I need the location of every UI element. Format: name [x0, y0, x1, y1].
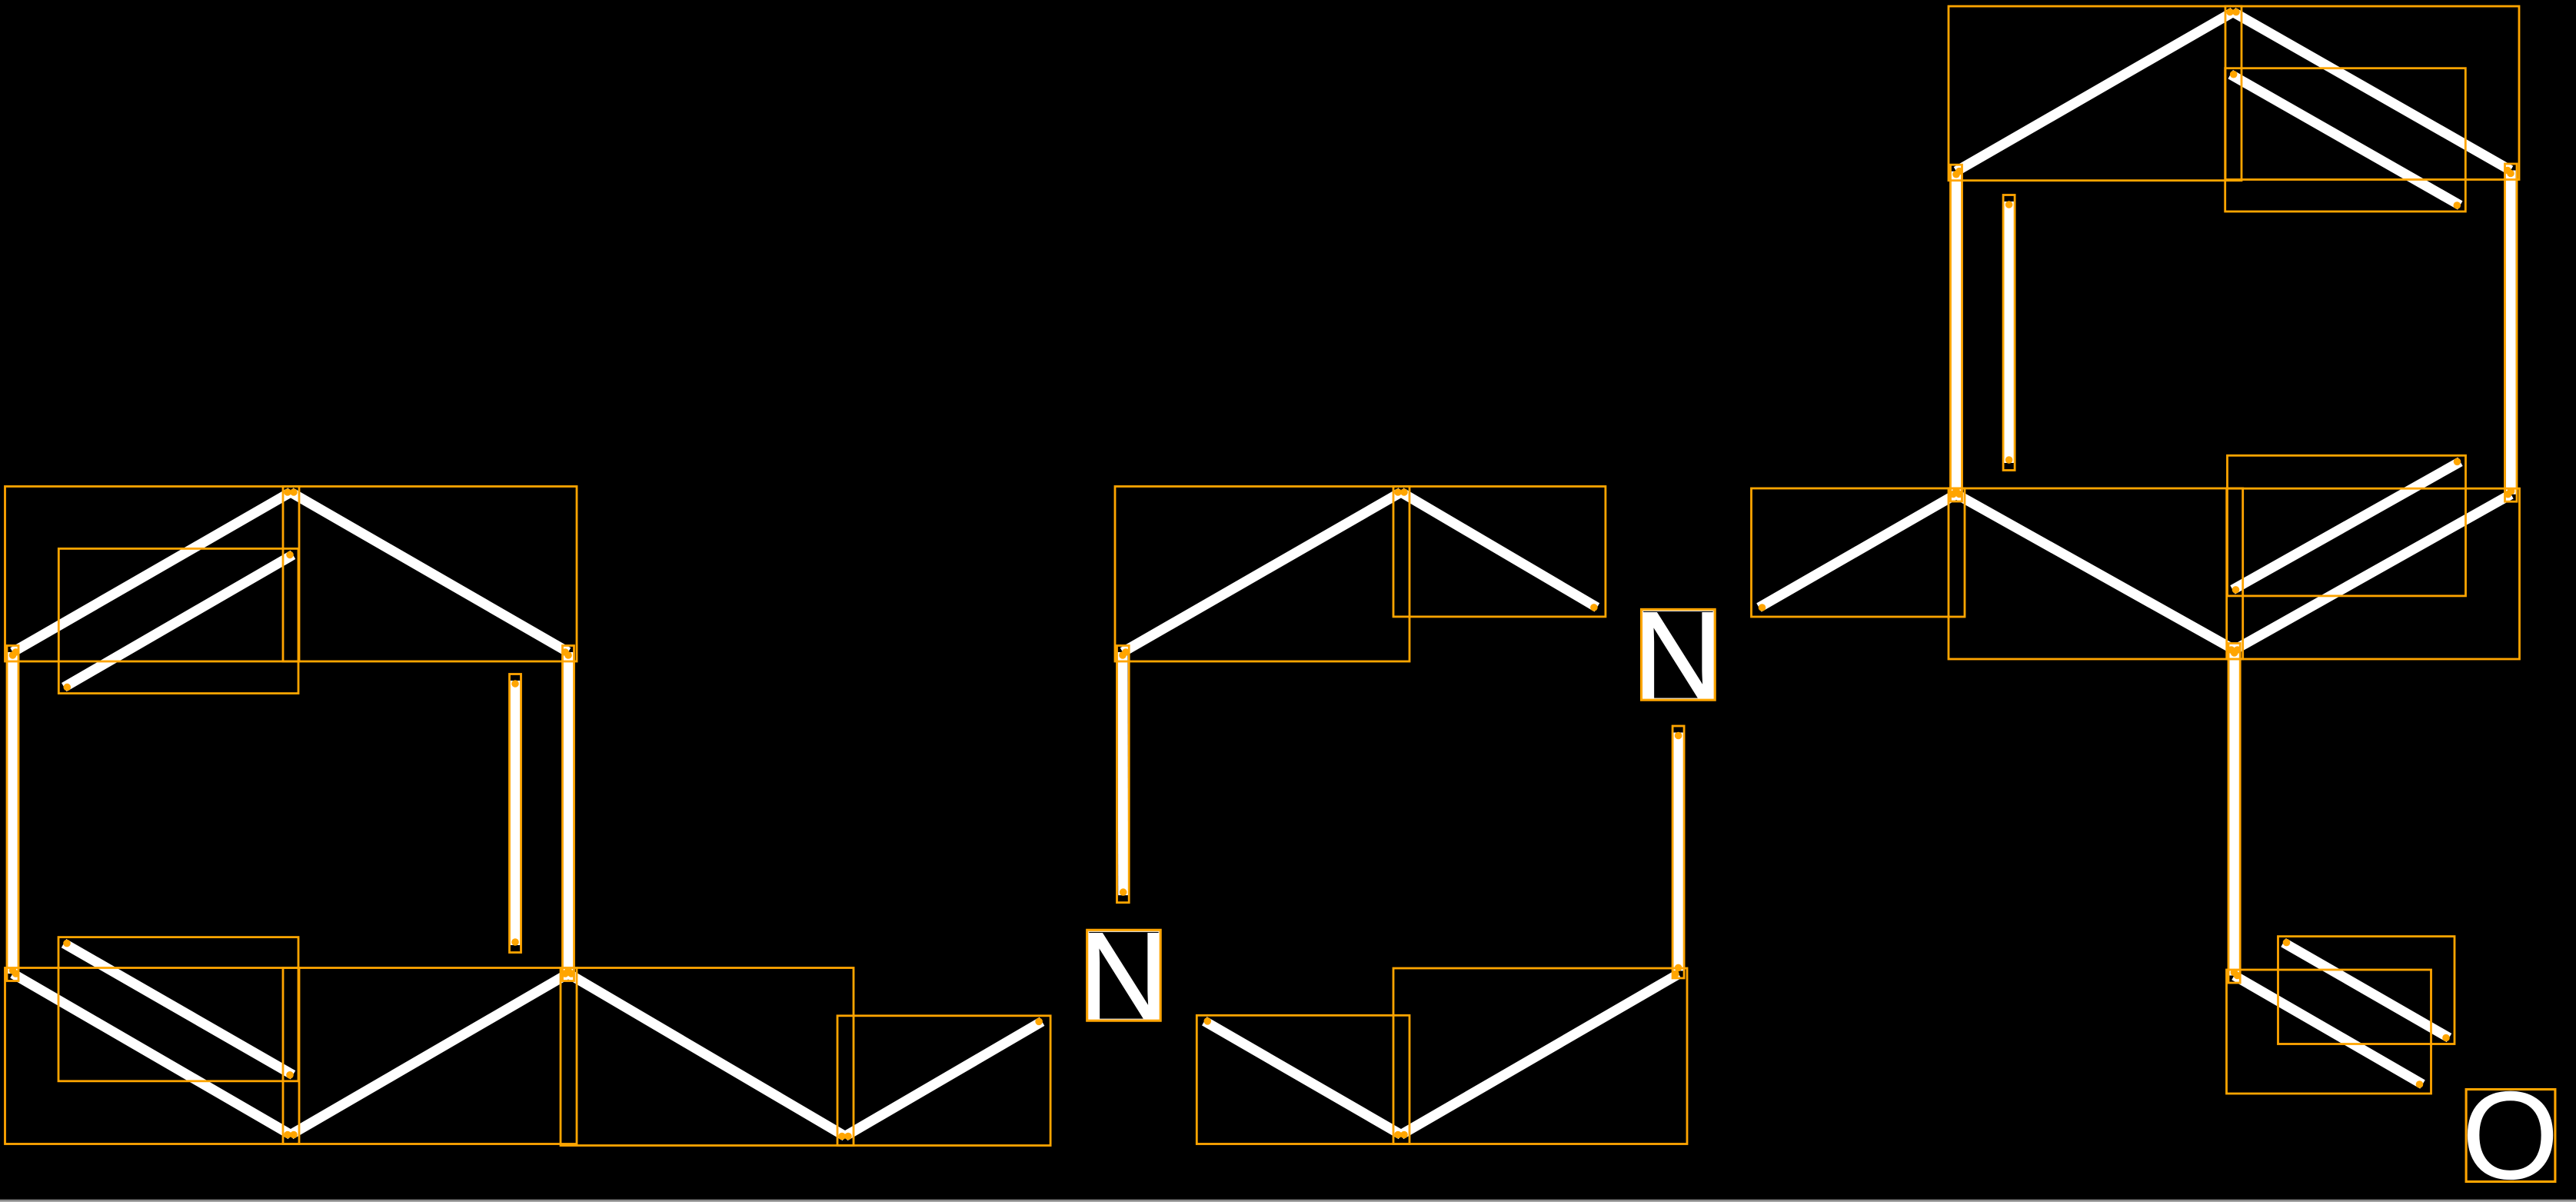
bond D3-D5 (phenyl-R single) — [2506, 171, 2517, 494]
bond A5-B1 (CH2 link) — [568, 974, 845, 1137]
endpoint dots of bond N2-C4 (piperazine) — [1675, 732, 1682, 740]
box of bond A5-B1 (CH2 link) — [561, 968, 854, 1146]
endpoint dots of bond D2-D1 (phenyl-R single) — [1955, 168, 1963, 175]
bond N1-C5 (piperazine) — [1204, 1021, 1401, 1135]
bond D1-D3 inner line — [2231, 75, 2461, 205]
box of bond D4-D6 (phenyl-R single) — [1949, 488, 2243, 659]
window bottom edge strip — [0, 1199, 2576, 1202]
box of bond D3-D5 (phenyl-R single) — [2505, 164, 2518, 501]
box of bond A6-A5 (phenyl-L single) — [283, 968, 577, 1144]
endpoint dots of bond D2-D4 (phenyl-R double, main) — [1952, 171, 1960, 178]
box of bond C2-N1 (piperazine) — [1117, 646, 1130, 903]
box of bond A3-A5 inner line — [510, 674, 521, 953]
box of bond CC=O inner line — [2278, 937, 2455, 1044]
endpoint dots of bond A3-A5 (phenyl-L double, main) — [564, 651, 572, 659]
box of bond N2-D4 (N-aryl) — [1752, 488, 1965, 617]
box of bond CC=O (carbonyl, main) — [2227, 970, 2431, 1094]
box of bond D2-D1 (phenyl-R single) — [1949, 6, 2242, 181]
box of bond D5-D6 inner line — [2228, 455, 2466, 596]
box of bond A3-A5 (phenyl-L double, main) — [563, 646, 574, 981]
bond A4-A6 inner line — [64, 944, 293, 1075]
bond D2-D4 (phenyl-R double, main) — [1952, 171, 1962, 494]
endpoint dots of bond D3-D5 (phenyl-R single) — [2507, 170, 2514, 178]
endpoint dots of bond C2-C1 (piperazine) — [1122, 648, 1130, 656]
bond A4-A6 (phenyl-L double, main) — [13, 974, 291, 1135]
box of bond D1-D3 (phenyl-R double, main) — [2225, 6, 2519, 179]
bond C2-N1 (piperazine) — [1118, 652, 1129, 895]
box of bond N1-C5 (piperazine) — [1196, 1015, 1409, 1144]
box of bond A2-A4 (phenyl-L single) — [7, 646, 18, 981]
bond C2-C1 (piperazine) — [1123, 492, 1401, 652]
bond N2-C4 (piperazine) — [1673, 733, 1683, 971]
box of bond A1-A2 inner line — [58, 548, 298, 693]
bond D2-D4 inner line — [2004, 201, 2014, 463]
endpoint dots of bond A3-A5 inner line — [511, 680, 519, 688]
bond D5-D6 (phenyl-R double, main) — [2235, 494, 2511, 650]
endpoint dots of bond A4-A6 inner line — [63, 940, 71, 947]
endpoint dots of bond C2-N1 (piperazine) — [1119, 651, 1127, 659]
bond A1-A2 inner line — [64, 554, 293, 687]
box of bond D5-D6 (phenyl-R double, main) — [2227, 488, 2520, 659]
endpoint dots of bond D4-D6 (phenyl-R single) — [1955, 491, 1963, 498]
box of bond A1-A2 (phenyl-L double, main) — [5, 487, 300, 662]
endpoint dots of bond A1-A3 (phenyl-L single) — [290, 488, 298, 496]
bond C1-N2 (piperazine) — [1401, 492, 1597, 608]
box of bond D2-D4 (phenyl-R double, main) — [1951, 165, 1962, 501]
bond CC=O (carbonyl, main) — [2235, 976, 2423, 1085]
endpoint dots of bond A1-A2 inner line — [286, 551, 294, 559]
svg-text:N: N — [1078, 906, 1169, 1047]
box of bond A1-A3 (phenyl-L single) — [283, 487, 577, 662]
endpoint dots of bond D2-D4 inner line — [2005, 201, 2013, 208]
box of bond D2-D4 inner line — [2003, 195, 2015, 471]
bond N2-D4 (N-aryl) — [1759, 494, 1957, 608]
endpoint dots of bond C1-N2 (piperazine) — [1400, 488, 1408, 496]
bond A3-A5 inner line — [511, 681, 521, 945]
endpoint dots of bond A1-A2 (phenyl-L double, main) — [284, 488, 291, 496]
bond D1-D3 (phenyl-R double, main) — [2233, 12, 2511, 171]
endpoint dots of bond N1-C5 (piperazine) — [1204, 1017, 1212, 1025]
endpoint dots of bond A4-A6 (phenyl-L double, main) — [12, 970, 20, 977]
bond A1-A3 (phenyl-L single) — [291, 492, 568, 652]
box of bond A4-A6 (phenyl-L double, main) — [5, 968, 300, 1144]
endpoint dots of bond B1-N1 — [844, 1133, 852, 1140]
box of bond D1-D3 inner line — [2225, 68, 2466, 211]
box of bond D6-CC (aryl-CHO link) — [2228, 644, 2240, 984]
bond D6-CC (aryl-CHO link) — [2229, 650, 2239, 976]
bond D5-D6 inner line — [2233, 461, 2461, 590]
bond C4-C5 (piperazine) — [1401, 974, 1679, 1135]
box of bond B1-N1 — [837, 1016, 1050, 1146]
endpoint dots of bond D6-CC (aryl-CHO link) — [2231, 649, 2238, 657]
endpoint dots of bond CC=O inner line — [2283, 939, 2291, 947]
box of bond N2-C4 (piperazine) — [1672, 726, 1684, 978]
svg-text:N: N — [1632, 585, 1723, 726]
bond CC=O inner line — [2284, 943, 2450, 1038]
bond D2-D1 (phenyl-R single) — [1956, 12, 2233, 171]
endpoint dots of bond A2-A4 (phenyl-L single) — [9, 651, 17, 659]
endpoint dots of bond A6-A5 (phenyl-L single) — [290, 1131, 298, 1139]
endpoint dots of bond D5-D6 (phenyl-R double, main) — [2504, 491, 2512, 498]
box of bond C1-N2 (piperazine) — [1393, 487, 1606, 617]
bond A3-A5 (phenyl-L double, main) — [564, 652, 574, 974]
bond B1-N1 — [845, 1021, 1042, 1136]
bond D4-D6 (phenyl-R single) — [1956, 494, 2235, 651]
bond A2-A4 (phenyl-L single) — [8, 652, 18, 974]
endpoint dots of bond CC=O (carbonyl, main) — [2234, 972, 2242, 980]
box of bond C4-C5 (piperazine) — [1393, 968, 1687, 1144]
box of bond A4-A6 inner line — [58, 937, 298, 1081]
bond A1-A2 (phenyl-L double, main) — [13, 492, 291, 652]
endpoint dots of bond A5-B1 (CH2 link) — [567, 970, 575, 977]
box of bond C2-C1 (piperazine) — [1115, 487, 1409, 662]
endpoint dots of bond D1-D3 inner line — [2230, 71, 2238, 78]
endpoint dots of bond D5-D6 inner line — [2454, 458, 2461, 466]
endpoint dots of bond C4-C5 (piperazine) — [1672, 971, 1679, 978]
bond A6-A5 (phenyl-L single) — [291, 974, 568, 1135]
endpoint dots of bond N2-D4 (N-aryl) — [1759, 604, 1766, 611]
endpoint dots of bond D1-D3 (phenyl-R double, main) — [2232, 8, 2240, 16]
